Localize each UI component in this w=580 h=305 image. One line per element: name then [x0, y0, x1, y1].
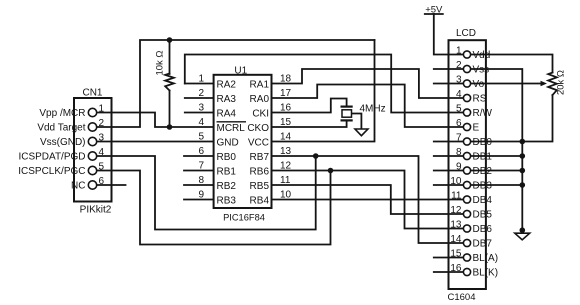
svg-text:CKI: CKI	[252, 109, 269, 120]
svg-text:16: 16	[280, 103, 292, 114]
svg-text:NC: NC	[71, 181, 85, 192]
svg-text:13: 13	[280, 146, 292, 157]
svg-text:ICSPCLK/PGC: ICSPCLK/PGC	[18, 166, 85, 177]
svg-text:RB2: RB2	[217, 181, 237, 192]
svg-text:20k Ω: 20k Ω	[556, 70, 567, 95]
svg-text:PIC16F84: PIC16F84	[223, 213, 265, 223]
svg-text:RB3: RB3	[217, 196, 237, 207]
svg-text:17: 17	[280, 88, 292, 99]
svg-text:5: 5	[99, 161, 105, 172]
svg-text:LCD: LCD	[456, 28, 476, 39]
svg-text:Vss: Vss	[473, 65, 490, 76]
svg-text:Vdd Target: Vdd Target	[37, 123, 85, 134]
svg-text:3: 3	[99, 132, 105, 143]
svg-text:RA4: RA4	[217, 109, 237, 120]
svg-text:ICSPDAT/PGD: ICSPDAT/PGD	[18, 152, 85, 163]
svg-text:RB0: RB0	[217, 152, 237, 163]
svg-text:1: 1	[456, 45, 462, 56]
svg-text:10k Ω: 10k Ω	[155, 50, 166, 75]
svg-text:C1604: C1604	[448, 292, 476, 303]
svg-text:DB7: DB7	[473, 239, 493, 250]
svg-text:DB6: DB6	[473, 224, 493, 235]
svg-text:2: 2	[456, 60, 462, 71]
svg-text:RB5: RB5	[250, 181, 270, 192]
svg-text:RB6: RB6	[250, 167, 270, 178]
svg-text:+5V: +5V	[425, 4, 443, 15]
svg-text:DB1: DB1	[473, 152, 493, 163]
svg-text:MCRL: MCRL	[217, 123, 246, 134]
svg-text:5: 5	[456, 103, 462, 114]
svg-text:14: 14	[280, 132, 292, 143]
svg-text:RA0: RA0	[250, 94, 270, 105]
svg-text:8: 8	[456, 147, 462, 158]
svg-text:DB2: DB2	[473, 166, 493, 177]
svg-text:12: 12	[280, 161, 292, 172]
svg-text:BL(A): BL(A)	[473, 253, 499, 264]
svg-text:8: 8	[198, 175, 204, 186]
svg-text:U1: U1	[234, 65, 247, 76]
svg-text:DB4: DB4	[473, 195, 493, 206]
svg-text:4MHz: 4MHz	[360, 104, 386, 115]
svg-text:CKO: CKO	[247, 123, 269, 134]
svg-text:RB4: RB4	[250, 196, 270, 207]
svg-text:2: 2	[198, 88, 204, 99]
svg-text:RA3: RA3	[217, 94, 237, 105]
svg-text:4: 4	[456, 89, 462, 100]
svg-text:Vdd: Vdd	[473, 50, 491, 61]
svg-text:12: 12	[450, 205, 462, 216]
svg-text:9: 9	[198, 190, 204, 201]
svg-text:14: 14	[450, 234, 462, 245]
svg-text:5: 5	[198, 132, 204, 143]
svg-text:RB7: RB7	[250, 152, 270, 163]
svg-text:9: 9	[456, 161, 462, 172]
svg-text:7: 7	[456, 132, 462, 143]
svg-text:DB0: DB0	[473, 137, 493, 148]
svg-text:BL(K): BL(K)	[473, 268, 499, 279]
svg-text:4: 4	[198, 117, 204, 128]
svg-text:3: 3	[456, 74, 462, 85]
svg-text:Vo: Vo	[473, 79, 485, 90]
svg-text:1: 1	[99, 103, 105, 114]
svg-text:11: 11	[280, 175, 291, 186]
svg-text:Vss(GND): Vss(GND)	[40, 137, 86, 148]
svg-text:PIKkit2: PIKkit2	[80, 204, 112, 215]
svg-text:10: 10	[450, 176, 462, 187]
svg-text:6: 6	[99, 176, 105, 187]
svg-text:10: 10	[280, 190, 292, 201]
svg-text:15: 15	[280, 117, 292, 128]
svg-text:7: 7	[198, 161, 204, 172]
svg-text:RS: RS	[473, 94, 487, 105]
svg-text:RA2: RA2	[217, 80, 237, 91]
svg-text:DB5: DB5	[473, 210, 493, 221]
svg-text:E: E	[473, 123, 480, 134]
svg-text:13: 13	[450, 219, 462, 230]
svg-text:15: 15	[450, 248, 462, 259]
svg-text:6: 6	[456, 118, 462, 129]
svg-text:VCC: VCC	[248, 138, 269, 149]
svg-text:11: 11	[451, 190, 462, 201]
svg-text:2: 2	[99, 118, 105, 129]
svg-text:Vpp /MCR: Vpp /MCR	[39, 108, 85, 119]
svg-text:16: 16	[450, 263, 462, 274]
svg-text:CN1: CN1	[82, 88, 102, 99]
svg-text:1: 1	[198, 74, 204, 85]
svg-text:GND: GND	[217, 138, 239, 149]
svg-text:RA1: RA1	[250, 80, 270, 91]
svg-text:RB1: RB1	[217, 167, 237, 178]
svg-text:DB3: DB3	[473, 181, 493, 192]
svg-text:6: 6	[198, 146, 204, 157]
svg-text:18: 18	[280, 74, 292, 85]
svg-text:R/W: R/W	[473, 108, 493, 119]
svg-text:3: 3	[198, 103, 204, 114]
svg-text:4: 4	[99, 147, 105, 158]
